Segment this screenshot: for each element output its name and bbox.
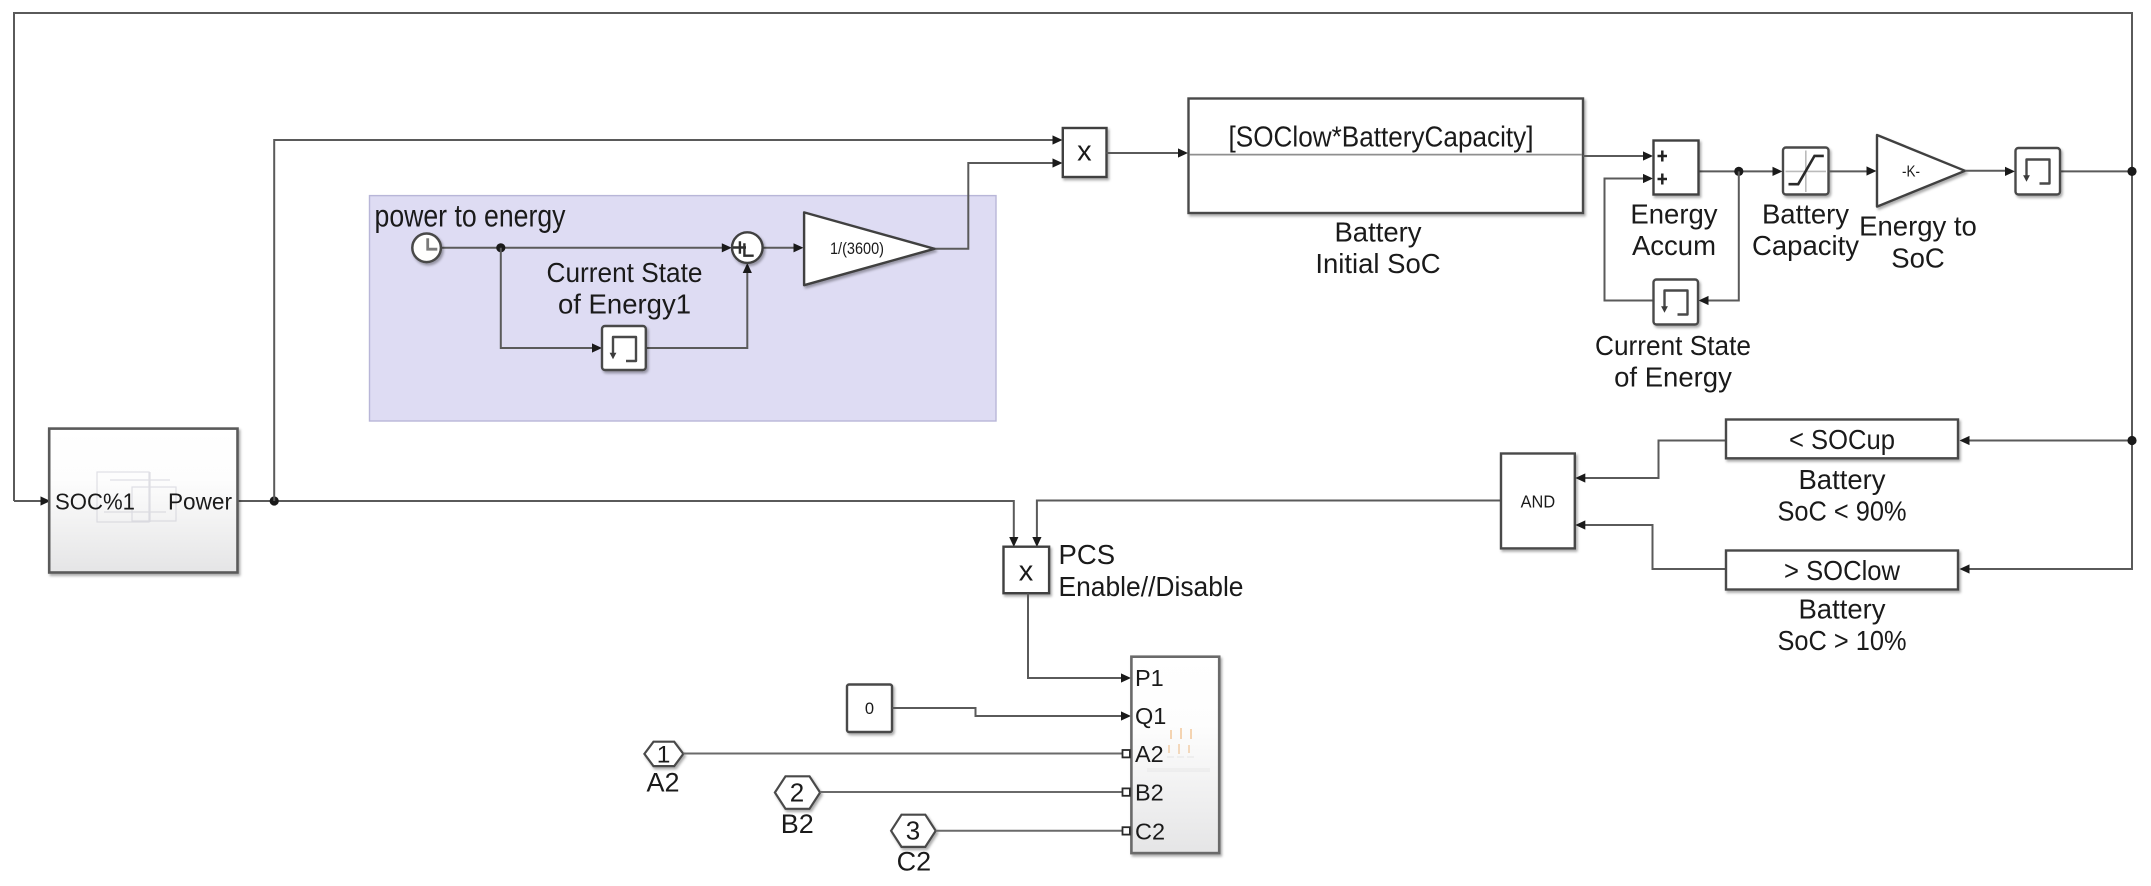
- svg-text:Accum: Accum: [1632, 230, 1716, 261]
- svg-text:Energy to: Energy to: [1859, 211, 1977, 242]
- wire: stub into SOC%1 input: [14, 500, 42, 502]
- block: SOC%1 Power subsystem: [49, 429, 237, 573]
- block: IC [SOClow*BatteryCapacity]: [1189, 99, 1584, 214]
- block: gain 1/(3600): [804, 212, 934, 285]
- svg-text:Capacity: Capacity: [1752, 230, 1859, 261]
- svg-text:< SOCup: < SOCup: [1789, 424, 1895, 455]
- svg-text:SoC < 90%: SoC < 90%: [1778, 496, 1907, 527]
- ghost: orange preview marks: [1147, 728, 1210, 770]
- block: constant 0: [847, 685, 892, 733]
- wire: clock to sum: [441, 247, 723, 249]
- svg-text:0: 0: [865, 700, 874, 718]
- svg-text:> SOClow: > SOClow: [1784, 555, 1901, 586]
- wire: AND output to PCS product: [1037, 501, 1501, 540]
- svg-text:-K-: -K-: [1902, 164, 1920, 181]
- svg-text:Energy: Energy: [1630, 198, 1717, 229]
- area: power to energy (lavender): [370, 196, 997, 421]
- block: product (SoC x Capacity): [1063, 128, 1107, 177]
- svg-text:Initial SoC: Initial SoC: [1315, 248, 1440, 279]
- svg-text:B2: B2: [1135, 779, 1164, 805]
- wire: constant to Q1: [893, 708, 1123, 716]
- svg-text:[SOClow*BatteryCapacity]: [SOClow*BatteryCapacity]: [1229, 122, 1534, 154]
- junction: clock branch: [496, 243, 505, 252]
- port: input 3 hexagon: [891, 815, 936, 847]
- wire: product to IC block: [1107, 152, 1180, 154]
- svg-text:SoC > 10%: SoC > 10%: [1778, 625, 1907, 656]
- block: compare > SOClow: [1726, 551, 1958, 590]
- block: clock: [412, 234, 441, 263]
- block: memory Current State of Energy: [1654, 280, 1699, 325]
- wire: Power output to PCS product: [238, 501, 1014, 539]
- wire: PCS product to P1: [1028, 594, 1123, 679]
- junction: memory/border: [2127, 167, 2136, 176]
- wire: Current State of Energy to Energy Accum input 2: [1605, 179, 1654, 301]
- block: memory Current State of Energy1: [602, 326, 646, 370]
- block: AND logical operator: [1501, 454, 1575, 549]
- svg-text:A2: A2: [646, 767, 679, 797]
- svg-text:Enable//Disable: Enable//Disable: [1059, 571, 1244, 602]
- svg-text:Q1: Q1: [1135, 703, 1166, 729]
- svg-text:B2: B2: [781, 809, 814, 839]
- port square: C2: [1123, 827, 1130, 834]
- wire: gain to product input 2: [935, 163, 1055, 249]
- svg-text:power to energy: power to energy: [375, 198, 566, 234]
- wire: branch up to product input 1: [274, 140, 1054, 501]
- svg-text:2: 2: [790, 777, 804, 807]
- wire: branch down to memory1: [501, 248, 594, 348]
- ghost sketch inside subsystem: [97, 472, 176, 522]
- svg-text:Battery: Battery: [1798, 464, 1885, 495]
- svg-text:1/(3600): 1/(3600): [830, 240, 884, 258]
- wire: hexagon 3 to C2 port: [936, 830, 1122, 832]
- wire: SOClow output to AND input 2: [1584, 525, 1727, 569]
- wire: branch to < SOCup: [1962, 440, 2132, 442]
- svg-text:A2: A2: [1135, 741, 1164, 767]
- wire: Energy Accum out / branch to Current State of Energy: [1699, 170, 1775, 172]
- wire: memory1 to sum bottom: [646, 272, 748, 349]
- wire: hexagon 2 to B2 port: [820, 791, 1122, 793]
- block: gain Energy to SoC: [1877, 135, 1965, 207]
- block: compare < SOCup: [1726, 420, 1958, 459]
- block: PCS product: [1004, 547, 1050, 594]
- svg-text:Battery: Battery: [1334, 217, 1421, 248]
- svg-text:C2: C2: [897, 847, 932, 877]
- svg-text:Current State: Current State: [547, 257, 703, 288]
- block: Energy Accum sum: [1654, 141, 1699, 195]
- IC inner line: [1190, 154, 1583, 156]
- block: three-phase subsystem: [1131, 657, 1219, 853]
- svg-text:PCS: PCS: [1059, 539, 1116, 570]
- wire: sum to gain: [763, 247, 795, 249]
- svg-text:of Energy1: of Energy1: [558, 289, 691, 320]
- svg-text:Battery: Battery: [1798, 594, 1885, 625]
- wire: SOCup output to AND input 1: [1584, 441, 1727, 479]
- svg-text:of Energy: of Energy: [1614, 362, 1732, 393]
- port: input 2 hexagon: [775, 776, 820, 809]
- port: input 1 hexagon: [644, 742, 683, 766]
- Energy Accum plus signs: [1658, 151, 1668, 162]
- junction: power output branch: [270, 496, 279, 505]
- svg-text:C2: C2: [1135, 818, 1165, 844]
- svg-text:P1: P1: [1135, 665, 1164, 691]
- port square: B2: [1123, 788, 1130, 795]
- arrow into > SOClow: [1960, 564, 1970, 573]
- wire: gain to memory: [1965, 170, 2007, 172]
- wire: hexagon 1 to A2 port: [683, 753, 1122, 755]
- svg-text:AND: AND: [1521, 492, 1556, 512]
- wire: saturation to gain: [1829, 170, 1869, 172]
- wire: memory to right border: [2060, 170, 2132, 172]
- svg-text:x: x: [1077, 136, 1092, 168]
- sum plus signs: [733, 241, 746, 253]
- junction: border/SOCup: [2127, 436, 2136, 445]
- svg-text:x: x: [1019, 556, 1034, 588]
- svg-text:1: 1: [657, 741, 671, 768]
- wire: outer feedback loop (top, left, right borders): [14, 13, 2132, 569]
- svg-text:SoC: SoC: [1891, 242, 1945, 273]
- svg-text:Battery: Battery: [1762, 198, 1849, 229]
- svg-text:Power: Power: [168, 489, 232, 515]
- block: sum (round): [732, 232, 763, 263]
- block: memory (SoC out): [2016, 148, 2061, 195]
- wire: IC to Energy Accum: [1583, 155, 1645, 157]
- port square: A2: [1123, 750, 1130, 757]
- svg-text:3: 3: [906, 816, 920, 846]
- svg-text:SOC%1: SOC%1: [55, 489, 135, 515]
- svg-text:Current State: Current State: [1595, 330, 1751, 361]
- block: Battery Capacity saturation: [1783, 148, 1829, 195]
